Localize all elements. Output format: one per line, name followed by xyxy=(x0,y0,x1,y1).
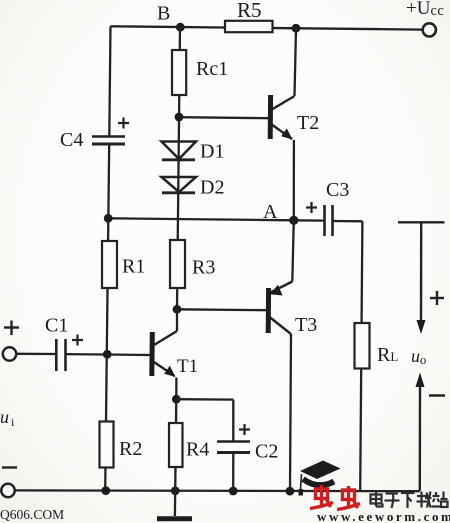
node B xyxy=(157,3,185,32)
svg-text:T1: T1 xyxy=(177,356,198,377)
power terminal +Ucc xyxy=(406,0,444,37)
wire T2 emitter down to A xyxy=(293,140,295,220)
wire left rail lower xyxy=(105,144,109,491)
junction bottom T3 collector xyxy=(286,487,295,496)
svg-text:T2: T2 xyxy=(297,112,319,134)
resistor RL xyxy=(355,323,399,369)
capacitor C1 xyxy=(45,315,83,372)
wire top rail xyxy=(111,26,422,29)
resistor R1 xyxy=(102,241,145,288)
wire T3 base xyxy=(177,308,267,311)
junction (R5 right / T2 collector) xyxy=(292,24,301,33)
wire T1 emitter down xyxy=(175,378,177,400)
svg-text:C2: C2 xyxy=(255,441,278,463)
diode D1 xyxy=(162,141,225,163)
ground xyxy=(157,491,192,519)
svg-text:www.eeworm.com: www.eeworm.com xyxy=(317,509,450,523)
svg-text:R2: R2 xyxy=(119,438,142,460)
svg-text:Rc1: Rc1 xyxy=(196,58,228,80)
wire B rail (Rc1/D1/D2/R3 column) xyxy=(177,27,180,309)
svg-text:B: B xyxy=(157,3,170,25)
wire T1 collector up xyxy=(176,309,178,331)
svg-text:A: A xyxy=(263,201,278,223)
input terminal bottom xyxy=(1,484,14,497)
junction (left rail / mid wire) xyxy=(104,214,113,223)
transistor T2 xyxy=(270,95,319,140)
transistor T3 xyxy=(268,282,317,337)
watermark dianzi xiazaizhan characters xyxy=(371,492,448,509)
capacitor C3 xyxy=(294,179,363,236)
output + bar xyxy=(398,221,445,223)
output down arrow xyxy=(417,222,426,334)
plus output xyxy=(430,291,444,305)
minus output xyxy=(429,394,445,397)
capacitor C2 xyxy=(217,424,278,491)
wire T2 base xyxy=(179,117,268,118)
wire T2 collector up xyxy=(295,28,297,96)
svg-text:C4: C4 xyxy=(60,129,83,151)
svg-text:C1: C1 xyxy=(45,315,68,337)
svg-text:R4: R4 xyxy=(186,439,209,461)
svg-text:RL: RL xyxy=(377,344,398,366)
svg-text:R5: R5 xyxy=(237,0,262,22)
svg-text:ui: ui xyxy=(0,407,15,429)
junction (Rc1 bottom / T2 base) xyxy=(175,113,184,122)
wire emitter node to C2 xyxy=(176,399,233,441)
wire C1 to T1 base xyxy=(66,353,151,356)
svg-text:C3: C3 xyxy=(326,179,349,201)
svg-text:D1: D1 xyxy=(200,141,224,163)
diode D2 xyxy=(162,177,225,199)
svg-text:D2: D2 xyxy=(200,177,224,199)
capacitor C4 xyxy=(60,118,129,152)
resistor R2 xyxy=(100,422,143,468)
svg-text:R3: R3 xyxy=(192,257,215,279)
svg-text:R1: R1 xyxy=(122,256,145,278)
wire RL rail xyxy=(360,221,362,491)
wire T3 collector down xyxy=(290,334,291,491)
transistor T1 xyxy=(152,331,198,377)
wire mid rail (C4 bottom to A) xyxy=(108,218,294,220)
watermark graduation cap xyxy=(299,461,341,496)
svg-text:uo: uo xyxy=(411,346,426,367)
resistor R4 xyxy=(169,423,209,467)
wire input to C1 xyxy=(16,353,56,356)
input terminal top xyxy=(3,321,19,361)
node A xyxy=(263,201,298,225)
wire emitter node down through R4 xyxy=(175,399,176,491)
wire bottom rail xyxy=(15,489,420,492)
wire A down to T3 emitter xyxy=(292,220,294,281)
junction bottom C2 xyxy=(229,487,238,496)
minus input xyxy=(2,466,17,468)
junction (T1 emitter / R4 / C2 branch) xyxy=(172,395,181,404)
resistor R3 xyxy=(170,240,215,288)
svg-text:Q606.COM: Q606.COM xyxy=(0,507,64,522)
resistor Rc1 xyxy=(172,50,228,95)
svg-text:+Ucc: +Ucc xyxy=(406,0,444,19)
junction (R1/R2/C1/T1 base) xyxy=(103,350,112,359)
output up arrow xyxy=(416,373,425,491)
junction bottom R4 xyxy=(171,486,180,495)
watermark chongchong red characters xyxy=(310,485,360,510)
svg-text:T3: T3 xyxy=(295,314,317,336)
resistor R5 xyxy=(225,0,273,32)
junction bottom left xyxy=(101,486,110,495)
junction (R3 bottom / T1 collector / T3 base) xyxy=(173,305,182,314)
wire left rail upper xyxy=(109,26,110,135)
